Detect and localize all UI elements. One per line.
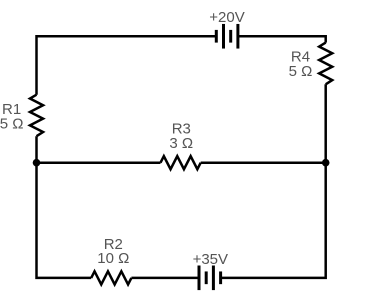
svg-text:5 Ω: 5 Ω [289, 63, 313, 80]
resistor R2 [91, 271, 131, 284]
wire [201, 161, 326, 164]
node B [322, 159, 330, 167]
resistor R1 [30, 95, 43, 137]
svg-text:+20V: +20V [209, 9, 244, 26]
wire [37, 136, 92, 278]
wire [37, 36, 217, 94]
battery V2 [199, 266, 221, 291]
resistor R3 [161, 156, 201, 169]
svg-text:10 Ω: 10 Ω [97, 250, 129, 267]
svg-text:3 Ω: 3 Ω [169, 135, 193, 152]
wire [131, 277, 199, 280]
svg-text:+35V: +35V [193, 251, 228, 268]
node A [33, 159, 41, 167]
resistor R4 [319, 43, 332, 85]
wire [238, 36, 326, 42]
wire [221, 84, 326, 278]
wire [37, 161, 161, 164]
svg-text:5 Ω: 5 Ω [0, 115, 23, 132]
battery V1 [216, 24, 238, 49]
